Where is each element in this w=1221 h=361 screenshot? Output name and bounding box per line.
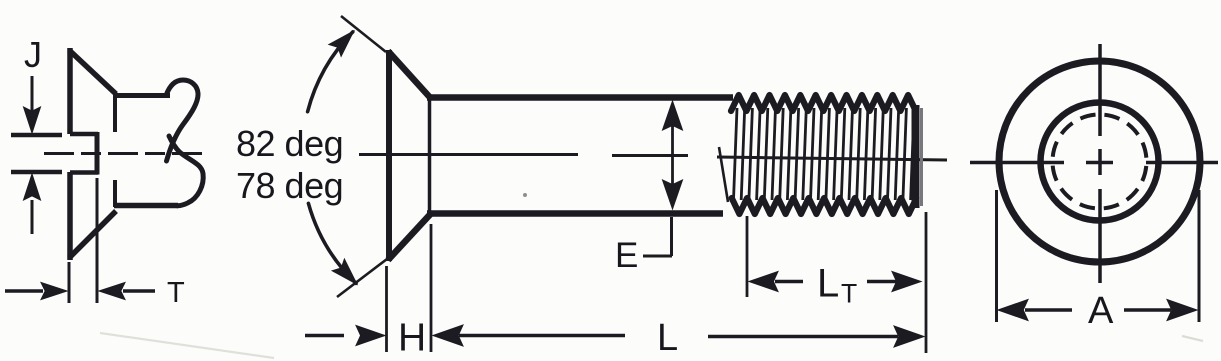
left view: centerline: [44, 152, 202, 155]
left view: head flat face edge (upper segment): [67, 48, 73, 134]
left view: shank bottom edge: [114, 203, 178, 209]
LT dimension left arrow (pointing left): [749, 272, 778, 292]
faint scan artifact diagonal bottom left: [100, 333, 274, 358]
left view: T dimension arrow left (pointing right): [5, 289, 43, 293]
LT dimension right arrow (pointing right): [867, 280, 896, 284]
end view: A extension line right: [1198, 190, 1201, 322]
end view: A dimension left arrow (pointing left): [998, 300, 1028, 321]
threads: runout diagonal: [719, 147, 728, 202]
middle view: angle extension line lower: [337, 259, 387, 297]
left view: cone-shank junction line lower: [113, 180, 117, 207]
left view: T extension line from head face: [68, 262, 71, 303]
svg-text:H: H: [398, 317, 426, 360]
svg-text:J: J: [24, 34, 42, 75]
middle view: E dimension arrow shaft: [671, 124, 674, 186]
svg-text:T: T: [841, 279, 857, 309]
svg-text:82 deg: 82 deg: [236, 123, 343, 164]
svg-text:L: L: [817, 262, 839, 306]
middle view: E arrowhead down: [663, 180, 683, 209]
middle view: cone top edge: [388, 51, 431, 98]
middle view: E leader vertical: [670, 217, 673, 256]
threads: bottom crest zigzag: [732, 198, 917, 214]
svg-text:T: T: [167, 277, 185, 309]
middle view: angle dimension arc upper segment: [308, 32, 353, 112]
middle view: cone bottom edge: [388, 214, 431, 260]
middle view: angle arc arrowhead lower: [332, 259, 357, 284]
left view: S-break lower bulge: [169, 136, 203, 206]
left view: J dimension arrow lower (pointing up): [31, 200, 34, 234]
left view: slot bottom edge: [70, 170, 98, 175]
extension line below head face: [385, 266, 388, 352]
end view: A dimension right arrow (pointing right): [1124, 308, 1171, 312]
svg-text:A: A: [1088, 290, 1114, 332]
left view: head flat face edge (lower segment): [67, 172, 73, 260]
end view: vertical centerline center dash: [1098, 149, 1102, 175]
middle view: centerline segment 2: [612, 154, 688, 157]
left view: shank top edge: [114, 93, 170, 98]
end view: vertical centerline top: [1098, 44, 1102, 136]
left view: T dimension arrow right (pointing left): [123, 289, 155, 293]
middle view: cone-shank junction line: [428, 100, 432, 214]
middle view: centerline segment 3: [717, 157, 947, 160]
end view: inner circle (shank/thread major): [1041, 103, 1159, 221]
middle view: E arrowhead up: [663, 101, 683, 130]
left view: countersink cone top edge: [69, 50, 116, 94]
end view: outer circle (head diameter): [999, 61, 1200, 262]
left view: S-break loop on broken shank: [166, 80, 198, 161]
svg-text:78 deg: 78 deg: [236, 165, 343, 206]
left view: J dimension extension line lower: [11, 170, 62, 175]
L dimension line right with arrow: [708, 335, 898, 339]
L dimension left arrow (pointing left): [433, 325, 463, 346]
H dimension line left with arrow pointing right: [305, 334, 344, 338]
threads: top crest zigzag: [731, 95, 916, 111]
left view: slot top edge: [70, 132, 98, 137]
svg-text:E: E: [615, 236, 638, 275]
end view: dashed circle (thread minor): [1053, 115, 1147, 209]
left view: J dimension arrow upper (pointing down): [31, 76, 34, 112]
middle view: angle dimension arc lower segment: [308, 203, 356, 283]
left view: J dimension extension line upper: [11, 133, 62, 138]
tiny scan speck: [523, 193, 527, 197]
middle view: angle arc arrowhead upper: [329, 31, 354, 56]
middle view: angle extension line upper: [341, 16, 386, 52]
middle view: shank bottom edge: [427, 210, 723, 217]
extension line below cone-shank junction: [430, 224, 433, 352]
middle view: centerline segment 1: [359, 153, 578, 156]
bolt end face: [912, 105, 920, 208]
middle view: E leader horizontal: [643, 255, 672, 258]
middle view: shank top edge: [427, 94, 733, 101]
faint scan artifact bottom right: [1182, 336, 1203, 341]
left view: T extension line from slot end: [96, 178, 99, 303]
end view: horizontal centerline left: [970, 161, 1064, 165]
bolt end shading: [920, 108, 923, 206]
end view: A extension line left: [995, 190, 998, 322]
threads: flank hatch lines: [734, 108, 915, 200]
extension line at bolt end: [925, 212, 928, 353]
left view: countersink cone bottom edge: [69, 211, 116, 258]
end view: horizontal centerline center dash: [1086, 161, 1113, 165]
left view: cone-shank junction line upper: [113, 95, 117, 132]
middle view: head flat face edge: [386, 50, 392, 261]
extension line at thread start: [746, 216, 749, 297]
end view: vertical centerline bottom: [1098, 189, 1102, 283]
svg-text:L: L: [657, 317, 678, 359]
end view: horizontal centerline right: [1146, 161, 1218, 165]
left view: slot inner end wall: [95, 132, 100, 175]
